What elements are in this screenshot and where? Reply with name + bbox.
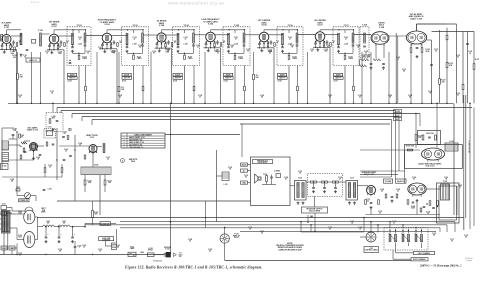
- antenna terminal J-101: [1, 35, 3, 42]
- svg-text:30: 30: [217, 53, 219, 55]
- wire drop T-101 return: [40, 52, 42, 103]
- svg-text:30: 30: [393, 223, 395, 225]
- wire discriminator to AF ampl: [389, 35, 406, 37]
- svg-text:TB-101: TB-101: [2, 248, 7, 250]
- speaker assembly enclosure box: [251, 157, 291, 206]
- interstage resistor at x64.0: [64, 43, 66, 47]
- bus line 2: [57, 107, 472, 109]
- left cluster wire x13: [12, 136, 14, 140]
- resistor on T-103 secondary drop: [142, 86, 144, 91]
- svg-text:V-105: V-105: [208, 24, 214, 26]
- pin dots V101 (R-F AMPL): [2, 43, 4, 45]
- IF transformer T-103 dashed enclosure: [122, 27, 149, 66]
- T-104 secondary winding: [193, 33, 195, 43]
- svg-text:R-138 150K: R-138 150K: [406, 146, 415, 148]
- audio cluster bottom parts row: [423, 206, 426, 208]
- filter section 3 series coil: [333, 181, 339, 183]
- T-104 damping resistor: [184, 55, 186, 59]
- T-105 primary tuning capacitor: [227, 46, 230, 48]
- bus right label box K-101: [394, 114, 402, 117]
- svg-text:60: 60: [107, 159, 109, 161]
- wire rail x474 with resistor: [473, 32, 475, 64]
- vertical drop x311: [310, 225, 312, 232]
- label box below T-107 1: [334, 73, 343, 76]
- long vertical wire x170: [170, 103, 172, 254]
- left edge terminal labels: [241, 163, 248, 166]
- vertical wire x75 osc section: [74, 135, 76, 201]
- svg-text:T-104: T-104: [183, 24, 189, 27]
- wire R-139 down to audio relay tube: [415, 141, 417, 149]
- svg-text:TEST PT: TEST PT: [225, 78, 231, 80]
- T-103 secondary winding: [142, 33, 144, 43]
- wire x404 vertical: [404, 150, 406, 183]
- tube V101 (R-F AMPL): [2, 35, 11, 44]
- label box below T-102 2: [68, 77, 78, 80]
- capacitor C-105: [26, 49, 29, 51]
- svg-text:GROUND: GROUND: [164, 247, 172, 249]
- svg-text:20: 20: [197, 47, 199, 49]
- wire bus into relay box 3: [415, 227, 417, 229]
- svg-text:R-139: R-139: [418, 136, 422, 138]
- svg-text:30: 30: [367, 201, 369, 203]
- wire momentary box: [84, 224, 86, 227]
- capacitor C-150: [43, 189, 46, 191]
- svg-text:W-101: W-101: [234, 237, 239, 239]
- tube V107 (2D LIMITER): [315, 32, 325, 42]
- interlock switch S-102: [147, 253, 154, 257]
- relay K-105 coil pair: [415, 234, 417, 242]
- left section long vertical wire: [16, 132, 18, 192]
- svg-text:L-110: L-110: [223, 184, 227, 186]
- svg-text:L-108: L-108: [344, 43, 348, 45]
- svg-text:V-106: V-106: [261, 25, 267, 27]
- wire V106 plate to T-106: [269, 34, 284, 36]
- wire T-107 secondary leg drop: [353, 66, 355, 87]
- receiver output drop wires: [307, 215, 309, 222]
- wire T-105 top rail: [229, 29, 245, 31]
- left terminal box: [1, 164, 9, 170]
- label box below T-105 1: [224, 73, 233, 76]
- wire T-105 secondary leg drop: [244, 66, 246, 87]
- svg-text:50: 50: [329, 97, 331, 99]
- bottom left terminal box 2: [9, 246, 15, 250]
- T-105 damping resistor: [234, 55, 236, 59]
- svg-text:J-102: J-102: [2, 166, 6, 168]
- svg-text:T-107: T-107: [343, 25, 349, 27]
- ground near L-101: [20, 54, 22, 55]
- svg-text:F-102: F-102: [16, 187, 20, 189]
- component on x216 wire: [216, 150, 218, 222]
- junction dot V105 grid return: [204, 103, 206, 105]
- vertical wire x57 osc section: [56, 128, 58, 180]
- wire V101 plate to L-101: [11, 35, 21, 37]
- svg-text:LINE: LINE: [140, 252, 144, 254]
- bus right label box AVC: [394, 118, 402, 121]
- svg-text:V-116: V-116: [18, 235, 22, 237]
- svg-text:L-120: L-120: [46, 221, 50, 223]
- cathode capacitor below V103 (HF I-F AMPL): [101, 44, 104, 46]
- svg-text:1 MEG: 1 MEG: [188, 58, 194, 60]
- T-106 primary winding: [282, 33, 284, 45]
- resistor R-126 on x216: [222, 172, 229, 181]
- label box below T-102 1: [68, 73, 77, 76]
- T-106 primary tuning capacitor: [281, 46, 284, 48]
- svg-text:60: 60: [209, 251, 211, 253]
- capacitor C-148 right of motor: [74, 246, 77, 248]
- svg-text:C-113: C-113: [183, 37, 187, 39]
- label BUSY CHANNEL box: [411, 258, 428, 261]
- discriminator load resistor R-126 zigzag: [361, 59, 369, 61]
- discriminator load resistor R-127 zigzag: [373, 59, 381, 61]
- label FOR CONTROL CABLE box: [364, 247, 379, 253]
- wire grid cap rail at x264.0: [263, 29, 265, 32]
- wires sweeping into audio cluster: [360, 170, 405, 172]
- resistor R-103: [14, 47, 16, 51]
- receiver output terminal symbol: [310, 215, 313, 217]
- svg-text:90: 90: [19, 97, 21, 99]
- svg-text:30: 30: [99, 251, 101, 253]
- junction dots power bottom: [45, 254, 46, 255]
- T-102 secondary capacitor: [84, 44, 87, 46]
- tube V103 (HF I-F AMPL): [102, 33, 112, 43]
- bus line 6: [92, 119, 392, 121]
- svg-text:C-108: C-108: [324, 49, 328, 51]
- speaker LS-101: [255, 174, 259, 183]
- svg-text:+: +: [314, 217, 315, 219]
- T-106 damping resistor: [288, 55, 290, 59]
- wire bus3 drop to cluster: [395, 111, 397, 180]
- components inside dashed network box: [49, 119, 51, 124]
- svg-text:SQUELCH: SQUELCH: [397, 181, 404, 183]
- drop wire V103 (HF I-F AMPL) cluster to bus: [115, 48, 117, 50]
- wire P-101 up: [224, 228, 226, 234]
- filter choke L-121: [58, 225, 70, 227]
- T-104 primary tuning capacitor: [177, 46, 180, 48]
- wire T-103 top rail: [128, 29, 144, 31]
- svg-text:80: 80: [457, 95, 459, 97]
- T-105 secondary winding: [243, 33, 245, 43]
- filter section 1 series coil: [311, 181, 317, 183]
- svg-text:90: 90: [327, 47, 329, 49]
- svg-text:INTLK: INTLK: [148, 250, 154, 252]
- svg-text:CAPACITORS ARE IN UUF: CAPACITORS ARE IN UUF: [278, 248, 302, 251]
- drop wire V102 (1ST MIXER) cluster to bus: [62, 49, 64, 51]
- V-113 grid resistor: [378, 200, 380, 205]
- power wire lower jog: [10, 247, 17, 249]
- meter label box POWER ON: [19, 199, 30, 202]
- wire switch to motor: [11, 208, 13, 212]
- wire T-107 top rail: [339, 29, 354, 31]
- T-104 centre junction wire: [178, 52, 194, 54]
- grid resistor below V104 (2D MIXER): [165, 43, 167, 46]
- power transformer T-120: [2, 211, 11, 234]
- svg-text:600 Ω 2 WIRE: 600 Ω 2 WIRE: [309, 211, 321, 213]
- wire grid cap rail at x161.5: [161, 30, 163, 32]
- tube V106 (1ST LIMITER): [259, 32, 269, 42]
- T-102 damping resistor: [78, 55, 80, 59]
- junction dot discr grid return: [361, 103, 363, 105]
- main B+ bus line: [8, 102, 452, 104]
- wire drop discr output: [388, 52, 390, 103]
- cluster wire below V105 (LF I-F AMPL): [204, 47, 219, 49]
- filter section 2 shunt capacitor: [324, 183, 326, 187]
- wire T-103 secondary leg drop: [142, 66, 144, 87]
- svg-text:www.mydatasheet.org.ua: www.mydatasheet.org.ua: [168, 1, 224, 6]
- parts inside resistor network box: [422, 135, 424, 140]
- wire V107 plate to T-107: [325, 34, 340, 36]
- wire T-103 to V104 grid: [143, 34, 157, 36]
- svg-text:S-102: S-102: [148, 248, 152, 250]
- junction dot V103 grid return: [96, 103, 98, 105]
- svg-text:20: 20: [119, 97, 121, 99]
- filter output transformer T-117: [346, 181, 358, 201]
- IF transformer T-106 dashed enclosure: [277, 27, 303, 66]
- note symbol circle: [121, 159, 125, 163]
- wire grid cap rail at x210.5: [210, 29, 212, 32]
- svg-text:30: 30: [79, 145, 81, 147]
- svg-text:L-108: L-108: [78, 43, 82, 45]
- wire rail x463 with resistor: [462, 32, 464, 85]
- volume control box: [384, 179, 393, 183]
- svg-text:R-110: R-110: [82, 56, 86, 58]
- wire T-105 centre leg drop to bus: [234, 66, 236, 104]
- wire output transformer down: [314, 196, 316, 207]
- cluster wire below V104 (2D MIXER): [155, 47, 170, 49]
- wire drop L-101 return: [31, 52, 33, 103]
- svg-text:R-122: R-122: [107, 181, 111, 183]
- resistor R-129: [439, 79, 441, 85]
- tube V104 (2D MIXER): [157, 33, 166, 42]
- resistor R-138: [407, 149, 413, 151]
- svg-text:L-121: L-121: [62, 221, 66, 223]
- wire bus into relay box 1: [389, 222, 391, 228]
- ground below V106 (1ST LIMITER): [261, 49, 263, 50]
- svg-text:T-101: T-101: [38, 30, 44, 32]
- svg-text:50: 50: [451, 241, 453, 243]
- connector J-103: [366, 232, 376, 242]
- svg-text:20: 20: [83, 247, 85, 249]
- T-105 primary ground: [228, 50, 230, 51]
- wire T-103 centre leg drop to bus: [133, 66, 135, 104]
- audio output dual tube V-114: [408, 183, 426, 195]
- left cluster parts row C: [63, 159, 66, 161]
- filter capacitor C-161: [58, 227, 60, 237]
- svg-text:1 MEG: 1 MEG: [82, 58, 88, 60]
- horizontal wire y134.5 from table to right: [165, 134, 240, 136]
- svg-text:S-101: S-101: [2, 204, 6, 206]
- junction dot T-101 return: [40, 103, 42, 105]
- wire T-107 to discriminator: [354, 34, 372, 36]
- svg-text:1 MEG: 1 MEG: [292, 58, 298, 60]
- T-104 primary ground: [177, 50, 179, 51]
- tube V105 (LF I-F AMPL): [206, 32, 216, 42]
- svg-text:K-101: K-101: [449, 141, 453, 143]
- rectifier tube V-116: [24, 232, 35, 248]
- wire crystal to V-111: [59, 145, 89, 147]
- svg-text:V-104: V-104: [159, 24, 165, 27]
- 1ST AF AMPL dual triode V-109: [406, 31, 426, 44]
- T-104 secondary capacitor: [192, 44, 195, 46]
- pin dots V103 (HF I-F AMPL): [102, 42, 104, 44]
- grid resistor below V101 (R-F AMPL): [10, 45, 12, 48]
- ground V-114: [416, 199, 418, 200]
- resistor R-135: [462, 84, 464, 90]
- horizontal wire y201 left: [57, 200, 251, 202]
- wire T-101 to V102 grid: [42, 33, 50, 35]
- svg-text:90: 90: [19, 255, 21, 257]
- svg-text:T-108: T-108: [94, 165, 99, 167]
- svg-text:TEST PT: TEST PT: [335, 78, 341, 80]
- T-102 primary winding: [72, 33, 74, 45]
- cathode capacitor below V101 (R-F AMPL): [1, 44, 4, 46]
- left input coil box upper: [2, 141, 9, 150]
- svg-text:TEST PT: TEST PT: [279, 78, 285, 80]
- svg-text:1 UF: 1 UF: [13, 130, 16, 132]
- right rail x474 long: [473, 108, 475, 227]
- wire V103 plate to T-103: [112, 35, 128, 37]
- vertical drop x205: [205, 201, 207, 228]
- svg-text:C-113: C-113: [78, 37, 82, 39]
- coil L-101: [20, 33, 22, 45]
- filter input transformer T-116: [295, 181, 307, 201]
- svg-text:V-101: V-101: [4, 27, 10, 29]
- bottom mains wire: [0, 254, 164, 256]
- wire power section to bottom rail: [3, 233, 5, 255]
- svg-text:R-110: R-110: [292, 56, 296, 58]
- svg-text:80: 80: [459, 187, 461, 189]
- wire transformer to rectifiers: [10, 213, 24, 215]
- wire bus6 drop to cluster: [391, 120, 393, 178]
- svg-text:1 MEG: 1 MEG: [137, 58, 143, 60]
- bus line 7: [240, 123, 390, 125]
- wire V104 plate to T-104: [166, 34, 179, 36]
- svg-text:P-102: P-102: [165, 249, 169, 251]
- oscillator ground: [33, 157, 35, 158]
- cluster wire below V103 (HF I-F AMPL): [100, 48, 115, 50]
- T-106 centre junction wire: [283, 52, 298, 54]
- svg-text:C-150: C-150: [48, 189, 52, 191]
- svg-text:C-113: C-113: [344, 37, 348, 39]
- label box below T-103 1: [122, 73, 131, 76]
- momentary switch box: [100, 222, 111, 226]
- wire T-102 top rail: [73, 29, 86, 31]
- T-103 primary ground: [126, 50, 128, 51]
- wire T-104 secondary leg drop: [193, 66, 195, 87]
- svg-text:L-105: L-105: [51, 116, 55, 118]
- svg-text:60: 60: [457, 57, 459, 59]
- svg-text:.01: .01: [427, 213, 429, 215]
- trimmer capacitor C-103: [32, 40, 36, 44]
- wire bus4 corner into cluster: [419, 114, 421, 127]
- discr double rail to bus: [395, 33, 397, 103]
- discriminator transformer winding: [364, 33, 366, 43]
- T-107 damping resistor: [344, 55, 346, 59]
- discriminator ground 2: [383, 67, 385, 68]
- speaker ampl tube V-113: [367, 186, 376, 195]
- svg-text:60: 60: [465, 237, 467, 239]
- resistor R-133: [446, 62, 448, 68]
- T-105 secondary capacitor: [243, 44, 246, 46]
- resistor R-137: [473, 64, 475, 70]
- wire J-103 left stub: [360, 236, 366, 238]
- relay dashed enclosure: [384, 228, 428, 251]
- T-102 centre junction wire: [73, 52, 86, 54]
- svg-text:C-113: C-113: [234, 37, 238, 39]
- svg-text:TEST PT: TEST PT: [69, 78, 75, 80]
- svg-text:6C4 V-112: 6C4 V-112: [426, 165, 435, 168]
- IF transformer T-107 dashed enclosure: [333, 27, 359, 66]
- T-103 primary tuning capacitor: [126, 46, 129, 48]
- svg-text:600 Ω INPUT: 600 Ω INPUT: [258, 162, 268, 164]
- oscillator cathode capacitor: [39, 154, 42, 156]
- interstage coupling capacitor at x217.5: [216, 41, 219, 43]
- svg-text:F-101: F-101: [130, 247, 134, 249]
- wire osc bus connect: [52, 103, 54, 112]
- svg-text:1000: 1000: [58, 53, 62, 55]
- wire drop AF ampl cathode: [410, 52, 412, 103]
- vertical drop x301: [300, 222, 302, 232]
- resistor on V101 screen feed drop: [17, 74, 19, 80]
- junction dot L-101 return: [31, 103, 33, 105]
- wire V105 plate to T-105: [215, 34, 229, 36]
- svg-text:90: 90: [285, 179, 287, 181]
- svg-text:R-126 R-127: R-126 R-127: [361, 55, 370, 57]
- relay K-104 coil pair: [402, 234, 404, 242]
- label box below T-106 1: [278, 73, 287, 76]
- svg-text:T-102: T-102: [76, 25, 82, 27]
- svg-text:Y-101: Y-101: [48, 127, 52, 129]
- svg-text:T-118: T-118: [443, 181, 447, 183]
- cluster wire below V102 (1ST MIXER): [47, 49, 62, 51]
- plug arrow: [173, 253, 176, 257]
- svg-text:V-115: V-115: [18, 211, 22, 213]
- rectifier tube V-115: [24, 210, 35, 224]
- wire rail x467.5: [467, 32, 469, 104]
- squelch control box: [396, 179, 407, 183]
- interstage resistor at x16.5: [16, 43, 18, 47]
- svg-text:6AK5 V-110: 6AK5 V-110: [27, 129, 39, 132]
- svg-text:TO REL: TO REL: [395, 111, 401, 113]
- T-106 primary ground: [282, 50, 284, 51]
- svg-text:50: 50: [87, 53, 89, 55]
- V-114 capacitor: [412, 201, 415, 203]
- label RECEIVER OUTPUT box: [302, 207, 328, 213]
- wire rectifier outputs join: [35, 216, 38, 218]
- AF ampl ground: [416, 55, 418, 56]
- transformer primary stubs: [0, 213, 2, 215]
- wire V-112 plate up: [436, 103, 438, 148]
- transformer T-101: [40, 33, 42, 46]
- interstage resistor at x171.5: [171, 43, 173, 47]
- svg-text:L-108: L-108: [234, 43, 238, 45]
- left cluster wire y139: [9, 138, 18, 140]
- svg-text:L-108: L-108: [132, 43, 136, 45]
- filter section 2 series coil: [322, 181, 328, 183]
- svg-text:PIN 4: PIN 4: [131, 160, 135, 163]
- filter capacitor C-162: [72, 227, 74, 237]
- junction dot discriminator return: [370, 103, 372, 105]
- plug prongs: [164, 253, 166, 255]
- interstage coupling capacitor at x327.0: [326, 41, 329, 43]
- resistor R-139: [415, 135, 417, 141]
- wire T-108 down legs: [84, 175, 86, 181]
- svg-text:20: 20: [64, 133, 66, 135]
- wire speaker line to V-113: [367, 186, 369, 190]
- svg-text:30: 30: [46, 53, 48, 55]
- audio and relay ampl tube V-112: [422, 148, 445, 160]
- svg-text:T-108: T-108: [362, 25, 367, 27]
- AF ampl coupling capacitor: [416, 47, 419, 49]
